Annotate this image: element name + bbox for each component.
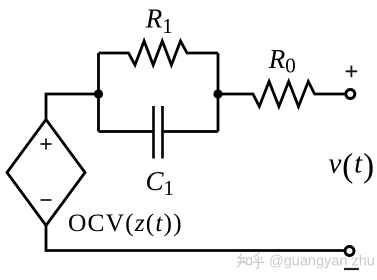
resistor R0 (218, 82, 345, 107)
svg-text:v(t): v(t) (329, 148, 375, 185)
output terminal bottom (345, 247, 354, 256)
node A junction dot (94, 89, 103, 98)
svg-text:@guangyan zhu: @guangyan zhu (269, 253, 375, 269)
dependent source OCV diamond (7, 120, 85, 226)
wire left vertical branch (97, 53, 100, 132)
watermark zhihu glyph hu (253, 253, 265, 269)
wire right vertical branch (217, 53, 220, 132)
node B junction dot (213, 89, 222, 98)
plus polarity mark (346, 66, 358, 78)
watermark zhihu glyph zhi (237, 254, 252, 268)
svg-text:R1: R1 (145, 4, 173, 39)
minus sign inside source (41, 199, 52, 201)
capacitor C1 wires (99, 130, 219, 133)
wire from source top to node A (46, 94, 100, 121)
svg-text:OCV(z(t)): OCV(z(t)) (68, 208, 183, 237)
svg-text:C1: C1 (146, 166, 175, 200)
capacitor C1 plates (154, 106, 163, 159)
minus polarity mark (344, 268, 359, 270)
wire source bottom to bottom rail (46, 224, 344, 251)
output terminal top (346, 90, 355, 99)
resistor R1 (99, 41, 219, 65)
plus sign inside source (41, 139, 52, 150)
svg-text:R0: R0 (268, 44, 296, 78)
